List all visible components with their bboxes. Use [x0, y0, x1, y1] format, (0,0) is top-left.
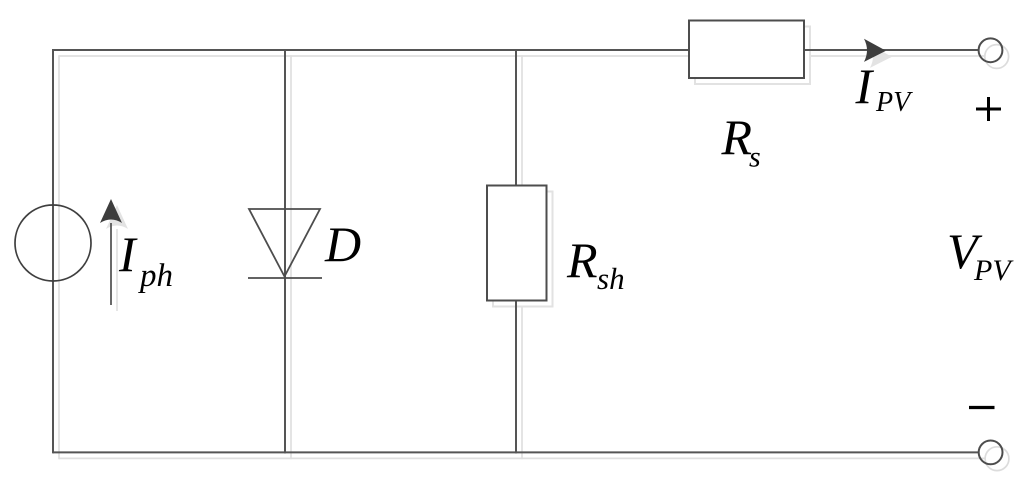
svg-text:R: R	[721, 109, 753, 165]
shadow of bottom wire	[59, 457, 985, 459]
shadow of left vertical wire	[58, 55, 60, 459]
svg-text:sh: sh	[597, 261, 625, 296]
shadow of diode branch wire	[290, 55, 292, 459]
shadow of bottom terminal circle	[985, 447, 1009, 471]
wire: diode branch vertical	[284, 49, 286, 453]
svg-text:D: D	[324, 216, 361, 272]
wire: left vertical	[52, 49, 54, 453]
diode cathode bar	[248, 277, 322, 279]
svg-text:R: R	[566, 232, 598, 288]
shadow of top wire	[59, 55, 984, 57]
Iph arrow	[110, 223, 112, 305]
resistor Rs body	[689, 21, 804, 79]
diode D triangle	[249, 209, 320, 277]
top terminal node	[979, 38, 1003, 62]
minus symbol	[969, 406, 995, 409]
svg-text:I: I	[118, 226, 138, 282]
shadow of Iph arrow	[116, 229, 118, 311]
svg-text:s: s	[749, 141, 761, 174]
resistor Rsh body	[487, 186, 547, 301]
bottom terminal node	[979, 441, 1003, 465]
wire: bottom horizontal	[53, 451, 979, 453]
shadow of resistor Rsh body	[493, 192, 553, 307]
wire: top horizontal	[53, 49, 978, 51]
shadow of Rsh branch wire	[521, 55, 523, 459]
svg-text:ph: ph	[138, 258, 173, 294]
plus symbol	[976, 108, 1001, 111]
svg-text:PV: PV	[973, 254, 1014, 287]
svg-text:I: I	[855, 58, 875, 114]
IPV current arrow head	[864, 39, 886, 62]
shadow of resistor Rs body	[695, 27, 810, 85]
current source Iph circle	[15, 205, 91, 281]
wire: Rsh branch vertical	[515, 49, 517, 453]
shadow of top terminal circle	[985, 45, 1009, 69]
shadow of IPV arrow head	[870, 45, 892, 68]
svg-text:PV: PV	[875, 87, 913, 118]
